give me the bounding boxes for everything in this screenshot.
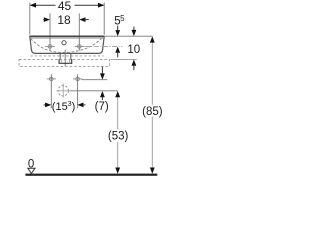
svg-text:18: 18 <box>57 13 71 27</box>
siphon dashed circle <box>58 86 68 96</box>
overflow hole circle <box>62 41 66 45</box>
dimension 45 line <box>30 4 104 6</box>
extension line left of 45 <box>29 3 31 35</box>
extension line fixing left down <box>50 74 52 108</box>
dim 10 up arrow <box>132 60 137 66</box>
extension line right of 45 <box>103 3 105 35</box>
basin outline <box>30 36 104 53</box>
tap axis dash-dot extension to right <box>85 45 123 47</box>
datum triangle <box>28 168 35 173</box>
svg-text:(7): (7) <box>95 101 109 113</box>
extension line tap hole right <box>78 13 80 50</box>
dimension 18 arrows and tails <box>44 17 50 22</box>
svg-text:(53): (53) <box>108 131 129 143</box>
basin rim top heavier line <box>30 35 104 37</box>
dashed concealed rectangle <box>19 59 110 66</box>
line1 fixing axis extension <box>82 79 108 81</box>
fixing hole crosshair right <box>73 77 82 81</box>
dim 53 vertical line <box>117 97 119 169</box>
dim 10 down arrow <box>133 27 135 31</box>
rim extension line to right <box>104 35 152 37</box>
dim 5.5 down arrow <box>117 26 119 31</box>
trap neck <box>59 54 61 60</box>
svg-text:10: 10 <box>127 44 140 56</box>
extension line fixing right down <box>77 74 79 108</box>
extension line tap hole left <box>49 13 51 50</box>
svg-text:45: 45 <box>58 0 72 13</box>
trap box inner lines <box>61 59 63 63</box>
fixing hole crosshair left <box>47 77 56 81</box>
dimension 45 arrows <box>30 3 36 8</box>
svg-text:(85): (85) <box>142 106 163 118</box>
basin inner rim line <box>31 37 103 39</box>
dim 85 vertical line <box>151 42 153 168</box>
dim 7 up arrow <box>100 91 105 97</box>
siphon axes <box>62 84 64 98</box>
trap box <box>59 59 72 63</box>
svg-text:): ) <box>72 101 76 113</box>
svg-text:(15: (15 <box>52 101 68 113</box>
centerline <box>64 50 66 67</box>
floor line <box>25 174 157 176</box>
hidden rear bottom dashed line <box>30 55 104 57</box>
dim 15.5 arrows <box>44 104 46 106</box>
dashed bowl outline <box>31 37 103 53</box>
tap hole crosshair left <box>45 45 55 49</box>
dim 5.5 up arrow <box>115 47 120 53</box>
dim 7 down arrow <box>101 67 103 74</box>
line2 drain axis extension <box>70 90 118 92</box>
extension line at 59.3 <box>111 58 137 60</box>
tap hole crosshair right <box>75 45 85 49</box>
svg-text:5: 5 <box>120 14 125 23</box>
